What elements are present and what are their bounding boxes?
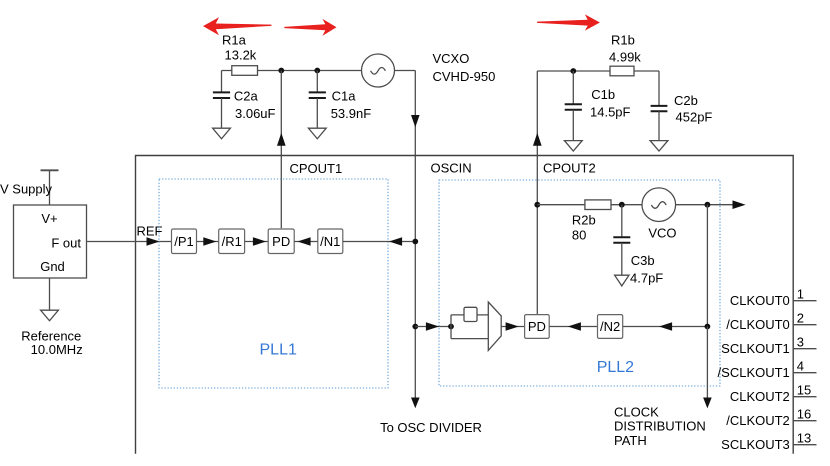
svg-text:PLL2: PLL2 <box>597 359 634 376</box>
flow arrow <box>298 237 311 246</box>
svg-text:SCLKOUT3: SCLKOUT3 <box>721 437 790 452</box>
svg-text:/P1: /P1 <box>174 234 194 249</box>
svg-text:13.2k: 13.2k <box>225 48 257 63</box>
svg-text:/N2: /N2 <box>600 319 620 334</box>
pin 3 SCLKOUT1 <box>721 335 816 357</box>
svg-text:V+: V+ <box>41 211 57 226</box>
svg-text:/R1: /R1 <box>222 234 242 249</box>
capacitor C1a <box>316 71 318 93</box>
divider /N2 <box>598 315 623 339</box>
svg-text:OSCIN: OSCIN <box>431 160 472 175</box>
svg-text:2: 2 <box>797 311 804 326</box>
oscillator VCO <box>642 188 676 222</box>
wire /R1 to PD <box>245 241 269 243</box>
feedback select box <box>464 307 477 321</box>
wire feedback branches <box>451 315 488 339</box>
wire VCXO output <box>395 70 416 72</box>
svg-text:CLKOUT0: CLKOUT0 <box>730 293 790 308</box>
pin 1 CLKOUT0 <box>730 287 817 309</box>
svg-text:CPOUT2: CPOUT2 <box>543 161 596 176</box>
svg-text:4.7pF: 4.7pF <box>630 270 663 285</box>
pin 16 /CLKOUT2 <box>726 407 816 429</box>
flow arrow up CPOUT1 <box>277 133 286 146</box>
svg-text:C1a: C1a <box>332 89 357 104</box>
wire clock distribution <box>706 327 708 398</box>
node junction OSCIN/feedback <box>412 324 418 330</box>
capacitor C3b <box>621 205 623 238</box>
oscillator VCXO <box>362 54 395 87</box>
svg-text:/SCLKOUT1: /SCLKOUT1 <box>718 365 790 380</box>
svg-text:CLOCK: CLOCK <box>614 404 659 419</box>
svg-text:4: 4 <box>797 359 804 374</box>
pin 2 /CLKOUT0 <box>726 311 816 333</box>
svg-text:PATH: PATH <box>614 433 647 448</box>
svg-text:C1b: C1b <box>591 87 615 102</box>
svg-text:1: 1 <box>797 287 804 302</box>
wire mux to PD <box>501 326 524 328</box>
svg-text:VCXO: VCXO <box>433 51 470 66</box>
svg-text:PD: PD <box>528 319 546 334</box>
power supply symbol <box>49 170 51 205</box>
capacitor C2b <box>658 71 660 106</box>
svg-text:4.99k: 4.99k <box>609 50 641 65</box>
ground reference <box>41 310 59 321</box>
flow arrow REF <box>147 237 160 246</box>
svg-text:V Supply: V Supply <box>0 181 53 196</box>
PLL1 region dotted <box>159 179 388 388</box>
IC boundary box <box>136 156 794 454</box>
node junction C3b tap <box>619 202 625 208</box>
svg-text:VCO: VCO <box>648 225 676 240</box>
svg-text:SCLKOUT1: SCLKOUT1 <box>721 341 790 356</box>
wire VCO down to feedback <box>706 205 708 327</box>
wire loop filter 1 rail <box>222 70 362 72</box>
wire REF input <box>87 241 172 243</box>
flow arrow <box>203 237 216 246</box>
flow arrow up CPOUT2 <box>533 133 542 146</box>
divider /P1 <box>172 229 197 254</box>
svg-text:CPOUT1: CPOUT1 <box>290 161 343 176</box>
wire VCO output <box>676 204 734 206</box>
flow arrow <box>568 322 581 331</box>
svg-text:C2b: C2b <box>674 93 698 108</box>
wire /P1 to /R1 <box>197 241 219 243</box>
wire OSCIN vertical <box>414 71 416 398</box>
ground C1b <box>564 141 582 151</box>
flow arrow clock distribution <box>703 398 712 409</box>
flow arrow <box>426 322 439 331</box>
ground C3b <box>615 275 629 286</box>
resistor R1b <box>610 66 634 76</box>
svg-text:452pF: 452pF <box>676 110 713 125</box>
wire CPOUT2 vertical <box>536 71 538 315</box>
pin 15 CLKOUT2 <box>730 383 817 405</box>
flow arrow down to OSC divider <box>411 398 420 409</box>
svg-text:To OSC DIVIDER: To OSC DIVIDER <box>380 420 482 435</box>
divider /R1 <box>219 229 245 254</box>
resistor R2b <box>585 200 611 210</box>
flow arrow <box>253 237 266 246</box>
flow arrow <box>659 322 672 331</box>
capacitor C2a <box>213 92 230 98</box>
wire PD to /N1 <box>294 241 318 243</box>
svg-text:3: 3 <box>797 335 804 350</box>
flow arrow <box>506 322 519 331</box>
wire reference to ground <box>49 278 51 310</box>
annotation arrow red right 2 <box>537 14 600 30</box>
svg-text:14.5pF: 14.5pF <box>590 105 631 120</box>
svg-text:13: 13 <box>797 431 811 446</box>
phase detector PD PLL2 <box>525 315 550 339</box>
pin 4 /SCLKOUT1 <box>718 359 817 381</box>
node junction C1a tap <box>314 68 320 74</box>
svg-text:/CLKOUT2: /CLKOUT2 <box>726 413 790 428</box>
svg-text:53.9nF: 53.9nF <box>331 106 372 121</box>
ground C1a <box>308 128 326 139</box>
svg-text:80: 80 <box>572 228 586 243</box>
node junction OSCIN//N1 <box>412 239 418 245</box>
svg-text:CLKOUT2: CLKOUT2 <box>730 389 790 404</box>
flow arrow VCO out <box>733 200 746 209</box>
wire OSCIN to PLL2 feedback <box>415 326 451 328</box>
wire PD2 to /N2 <box>549 326 597 328</box>
mux selector <box>488 302 501 350</box>
annotation arrow red left <box>203 17 272 35</box>
annotation arrow red right 1 <box>284 19 336 36</box>
phase detector PD PLL1 <box>268 229 294 254</box>
wire CPOUT1 vertical <box>280 71 282 229</box>
reference oscillator block <box>14 205 87 278</box>
svg-text:15: 15 <box>797 383 811 398</box>
svg-text:DISTRIBUTION: DISTRIBUTION <box>614 419 706 434</box>
ground C2b <box>650 141 668 151</box>
svg-text:R1b: R1b <box>611 33 635 48</box>
node junction C1b tap <box>570 68 576 74</box>
pin 13 SCLKOUT3 <box>721 431 816 453</box>
node junction feedback split <box>448 324 454 330</box>
svg-text:F out: F out <box>51 236 81 251</box>
svg-text:CVHD-950: CVHD-950 <box>433 69 496 84</box>
PLL2 region dotted <box>439 180 720 386</box>
divider /N1 <box>318 229 343 254</box>
node junction feedback/clock path <box>705 324 711 330</box>
node junction VCO out <box>705 202 711 208</box>
node junction R2b rail <box>534 202 540 208</box>
node junction CPOUT1/filter <box>278 68 284 74</box>
ground C2a <box>213 128 231 139</box>
wire C2a to ground <box>221 98 223 128</box>
wire /N2 to VCO line <box>623 326 708 328</box>
svg-text:C3b: C3b <box>631 253 655 268</box>
svg-text:Gnd: Gnd <box>40 259 65 274</box>
svg-text:PLL1: PLL1 <box>260 342 297 359</box>
flow arrow down into OSCIN <box>411 115 420 127</box>
svg-text:16: 16 <box>797 407 811 422</box>
svg-text:10.0MHz: 10.0MHz <box>31 342 83 357</box>
wire /N1 to OSCIN line <box>343 241 416 243</box>
flow arrow <box>389 237 402 246</box>
wire loop filter 2 rail <box>537 70 659 72</box>
wire R2b rail <box>537 204 642 206</box>
svg-text:/N1: /N1 <box>320 234 340 249</box>
svg-text:PD: PD <box>272 234 290 249</box>
svg-text:3.06uF: 3.06uF <box>235 106 276 121</box>
svg-text:C2a: C2a <box>234 89 259 104</box>
svg-text:/CLKOUT0: /CLKOUT0 <box>726 317 790 332</box>
svg-text:R1a: R1a <box>222 33 247 48</box>
resistor R1a <box>232 66 258 76</box>
svg-text:R2b: R2b <box>572 212 596 227</box>
wire left leg to C2a <box>221 71 223 93</box>
capacitor C1b <box>572 71 574 104</box>
